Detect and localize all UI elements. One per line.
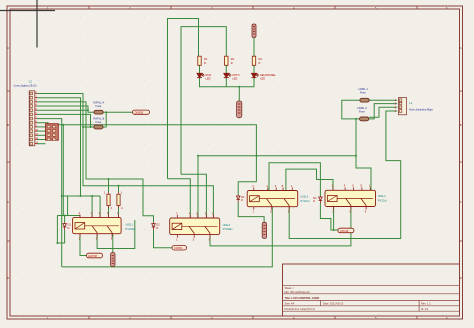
wire branch down to h215 <box>62 125 64 216</box>
svg-text:D: D <box>68 226 70 230</box>
wire diode D3 top <box>238 182 256 195</box>
svg-text:Id: 1/1: Id: 1/1 <box>421 307 429 311</box>
svg-text:U02L2: U02L2 <box>223 223 231 227</box>
wire vfuse FA2 feed <box>118 186 120 192</box>
LED D5 RUN <box>197 73 204 77</box>
wire relay K1 pin2 feed <box>91 196 93 217</box>
svg-text:C1: C1 <box>29 80 33 84</box>
connector C1 <box>14 80 39 146</box>
crop corner lines <box>0 0 55 48</box>
svg-text:R2: R2 <box>231 57 235 61</box>
svg-text:KiCad E.D.A. kicad (5.0.2): KiCad E.D.A. kicad (5.0.2) <box>285 307 315 311</box>
wire h174 to relay K2 pin3 <box>181 174 206 218</box>
wire LED2 drop <box>225 78 227 87</box>
svg-text:HORL.2: HORL.2 <box>358 106 368 110</box>
wire h196 segment <box>62 195 100 197</box>
diode D1 <box>63 222 72 230</box>
svg-text:R1: R1 <box>204 57 208 61</box>
wire C1 pin12 stub <box>37 139 46 141</box>
svg-text:R3: R3 <box>259 57 263 61</box>
svg-text:ONS05: ONS05 <box>135 111 144 115</box>
svg-text:HORL.1: HORL.1 <box>359 87 369 91</box>
svg-text:Fuse: Fuse <box>359 110 365 114</box>
wire top loop to R1 <box>168 19 199 179</box>
relay K4 <box>325 184 387 214</box>
wire horn fuse F3 to L2 pin1 <box>369 99 397 101</box>
svg-text:B: B <box>7 123 9 127</box>
wire to vertical label GND <box>238 87 240 101</box>
vertical global label GND mid <box>237 101 242 118</box>
wire R3 to LED3 <box>253 65 255 73</box>
svg-text:U02L1: U02L1 <box>126 222 134 226</box>
svg-text:R: R <box>231 61 233 65</box>
svg-text:C: C <box>7 200 9 204</box>
wire h169 to relay K3 pin4 <box>286 169 333 190</box>
svg-text:D: D <box>460 276 462 280</box>
svg-text:D: D <box>7 276 9 280</box>
diode D3 <box>236 195 244 202</box>
wire diode D1 bottom <box>57 216 64 244</box>
wire relay K1 pin1 stub <box>79 216 81 218</box>
fuse F3 HORL.1 <box>359 87 370 102</box>
global label CPO-B <box>338 228 354 233</box>
svg-text:File: t35 coolthing.sch: File: t35 coolthing.sch <box>285 290 311 294</box>
wire v198 to relay K2 <box>197 156 199 218</box>
wire fuse F2 output link <box>103 112 106 127</box>
wire C1 pin5 to fuse F1 <box>37 109 88 111</box>
wire fuse F2 feed branch <box>83 126 94 128</box>
wire node branch down left <box>57 196 67 216</box>
wire relay K1 pin2b hook <box>97 220 135 249</box>
svg-text:RY2Col: RY2Col <box>300 199 309 203</box>
resistor R3 <box>252 56 262 65</box>
vertical global label above R3 <box>252 24 256 38</box>
svg-text:R: R <box>204 61 206 65</box>
wire horn fuse F4 to L2 pin2 <box>369 104 397 119</box>
vertical global label under K1 <box>111 253 115 267</box>
wire relay K4 pin1b to label <box>334 207 338 231</box>
wire C1 pin4 to fuse FA1 <box>37 106 94 112</box>
wire h178 to relay K2 pin1 <box>168 179 191 218</box>
wire C1 pin8 long run to relay K3 <box>37 123 256 182</box>
svg-text:D1: D1 <box>68 222 72 226</box>
svg-text:D: D <box>313 199 315 203</box>
wire C1 pin10 stub <box>37 130 46 132</box>
svg-text:D3: D3 <box>241 195 245 199</box>
connector L2 <box>395 98 433 115</box>
svg-text:Fuse: Fuse <box>96 104 102 108</box>
svg-text:U02L3: U02L3 <box>300 194 308 198</box>
svg-text:RY2Col: RY2Col <box>378 199 387 203</box>
svg-text:B: B <box>460 123 462 127</box>
wire L2 pin3 <box>369 107 397 117</box>
wire C1 pin11 stub <box>37 134 46 136</box>
svg-text:OPTO: OPTO <box>232 73 239 77</box>
vertical fuse FA2 <box>117 191 123 211</box>
LED D6 OPTO <box>224 73 231 77</box>
wire R2 to LED2 <box>225 65 227 73</box>
wire diode D3 bottom to label <box>238 202 264 222</box>
svg-text:RAPLL.B: RAPLL.B <box>94 116 105 120</box>
fuse F2 RAPLL.B <box>94 116 105 129</box>
wire C1 pin9 stub <box>37 126 46 128</box>
resistor R2 <box>225 56 235 65</box>
wire relay K1 pin3 feed <box>99 196 101 217</box>
svg-text:Title: LX15 CONTROL CARD: Title: LX15 CONTROL CARD <box>285 296 320 300</box>
svg-text:CPO-B: CPO-B <box>340 229 348 233</box>
svg-text:D4: D4 <box>313 196 317 200</box>
svg-text:HELP/PANEL: HELP/PANEL <box>260 73 276 77</box>
wire LED cathode bus <box>200 78 255 87</box>
wire C1 pin3 chain to diode D2 <box>37 102 154 223</box>
wire relay K1 pin3b to vertical label <box>112 234 114 253</box>
global label STOP <box>133 110 150 114</box>
svg-text:LED: LED <box>260 76 265 80</box>
svg-text:R: R <box>259 61 261 65</box>
svg-text:U02L4: U02L4 <box>378 194 386 198</box>
svg-text:LED: LED <box>232 76 237 80</box>
wire C1 pin13 stub <box>37 143 46 145</box>
title block <box>283 264 460 316</box>
relay K2 <box>170 211 234 241</box>
svg-text:Size: A4: Size: A4 <box>285 302 295 306</box>
svg-text:A: A <box>7 46 9 50</box>
wire relay K2 pin3b to relay K4 <box>210 207 351 246</box>
svg-text:LED: LED <box>206 76 211 80</box>
wire diode D1 top <box>64 216 66 223</box>
svg-text:Rev: 1.1: Rev: 1.1 <box>421 302 431 306</box>
wire fuse junction drop <box>355 119 357 156</box>
wire L2 pin4 long run to relay K3 <box>289 111 401 239</box>
svg-text:Date: 2021-05-13: Date: 2021-05-13 <box>323 302 344 306</box>
svg-text:Horn,Switches,Right: Horn,Switches,Right <box>409 108 433 112</box>
svg-text:RAPLL.A: RAPLL.A <box>94 100 105 104</box>
wire R1 to LED1 <box>199 65 201 73</box>
resistor R1 <box>198 56 208 65</box>
wire relay K1 pin1b to label ESTOP <box>80 234 87 256</box>
wire left rail to bus <box>62 207 273 267</box>
wire C1 pin6 to fuse FA2 <box>37 114 91 127</box>
global label ESTOP <box>87 253 103 258</box>
svg-text:RUN: RUN <box>206 73 212 77</box>
svg-text:D: D <box>241 198 243 202</box>
wire label to R3 <box>253 38 255 57</box>
jumper block JP1 <box>46 124 59 141</box>
relay K1 <box>73 211 137 241</box>
wire C1 pin2 chain to relay K2 <box>37 98 81 196</box>
relay K3 <box>247 184 310 214</box>
svg-text:D: D <box>156 226 158 230</box>
svg-text:Fuse: Fuse <box>360 90 366 94</box>
svg-text:Sheet: /: Sheet: / <box>285 286 294 290</box>
global label CONTL <box>172 246 187 251</box>
svg-text:CONTL: CONTL <box>174 246 183 250</box>
wire vfuse FA1 feed <box>108 179 110 192</box>
wire h162 to relay K3 pin2 <box>269 163 320 196</box>
wire vfuse FA1 bottom <box>108 206 110 218</box>
svg-text:D2: D2 <box>156 222 160 226</box>
wire h215 <box>57 215 80 217</box>
fuse F1 RAPLL.A <box>94 100 105 114</box>
svg-text:RY2Max: RY2Max <box>126 227 137 231</box>
fuse F4 HORL.2 <box>358 106 369 121</box>
svg-text:A: A <box>460 46 462 50</box>
svg-text:RY2Max: RY2Max <box>223 227 234 231</box>
wire diode D4 bottom <box>320 204 333 230</box>
wire horn fuse pair left <box>342 100 360 119</box>
wire vfuse FA2 bottom <box>118 206 120 218</box>
wire C1 pin1 chain to relay K1 <box>37 94 213 219</box>
wire top loop to R2 <box>181 27 226 175</box>
wire fuse F1 output to label <box>103 111 132 113</box>
wire h156 trunk <box>198 155 356 157</box>
vertical fuse FA1 <box>104 191 113 211</box>
svg-text:ESTOP: ESTOP <box>89 254 98 258</box>
LED D7 HELP/PANEL <box>252 73 259 77</box>
wire jog to relay K4 pin5 <box>356 156 371 191</box>
vertical global label under K3 <box>262 222 266 238</box>
svg-text:Cons,Jogbox,25x13: Cons,Jogbox,25x13 <box>14 83 37 87</box>
svg-text:C: C <box>460 200 462 204</box>
diode D4 <box>313 196 322 204</box>
diode D2 <box>152 222 161 230</box>
svg-text:Fuse: Fuse <box>96 120 102 124</box>
wire diode D2 bottom to label <box>154 230 173 248</box>
wire C1 pin7 down <box>37 119 62 267</box>
